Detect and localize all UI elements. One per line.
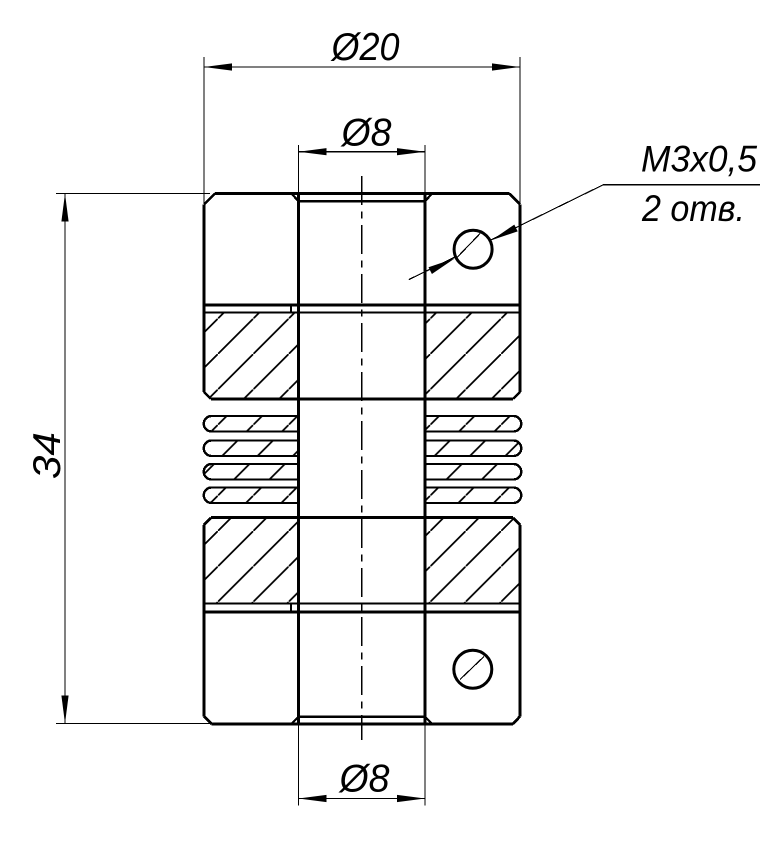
flexure bar right 2: [425, 440, 521, 456]
flexure bar left 1: [204, 416, 299, 432]
bottom clamp slit end: [290, 604, 292, 612]
dim 34 arrow bottom: [61, 696, 68, 724]
svg-text:Ø8: Ø8: [340, 112, 392, 155]
bottom face line: [212, 723, 513, 726]
leader arrow upper-right: [491, 225, 517, 241]
chamfer bottom-right: [513, 716, 520, 724]
hatch fill upper-left clamp block: [204, 313, 299, 399]
left outer edge upper half: [203, 205, 206, 393]
lower block top edge: [211, 516, 513, 519]
screw hole bottom axis chord: [460, 657, 484, 680]
bore line right: [423, 194, 426, 725]
flexure bar left 3: [204, 464, 299, 480]
dim Ø20 arrow left: [204, 63, 232, 70]
top bore chamfer line: [299, 200, 426, 202]
leader arrow lower-left: [429, 258, 455, 274]
dim Ø8 bottom extension right: [424, 724, 426, 806]
flexure bar right 4: [425, 488, 521, 504]
dim Ø8 top arrow right: [397, 148, 425, 155]
hatch fill upper-right clamp block: [425, 313, 520, 399]
dim Ø8 bottom extension left: [298, 724, 300, 806]
bottom bore chamfer diagonal right: [425, 717, 432, 724]
top hub bottom edge: [204, 304, 520, 307]
dim Ø8 bottom arrow left: [299, 795, 327, 802]
hatch fill lower-right clamp block: [425, 518, 520, 604]
svg-text:Ø8: Ø8: [338, 758, 390, 801]
top clamp slit lower line: [204, 312, 520, 314]
dim Ø8 top arrow left: [299, 148, 327, 155]
chamfer upper-block bottom-right: [513, 392, 520, 399]
leader line to thread note: [409, 257, 456, 280]
left outer edge lower half: [203, 525, 206, 716]
flexure bar right 1: [425, 416, 521, 432]
dim Ø20 line: [204, 66, 520, 68]
chamfer top-right: [510, 194, 521, 205]
dim Ø8 top extension right: [424, 145, 426, 194]
chamfer bottom-left: [204, 716, 212, 724]
screw hole top axis chord: [457, 233, 480, 257]
top bore chamfer diagonal left: [291, 194, 298, 202]
svg-text:М3х0,5: М3х0,5: [641, 139, 757, 180]
flexure bar right 3: [425, 464, 521, 480]
hatch fill lower-left clamp block: [204, 518, 299, 604]
top face line: [215, 192, 510, 195]
flexure bar left 4: [204, 488, 299, 504]
dim Ø8 top extension left: [298, 145, 300, 194]
flexure bar left 2: [204, 440, 299, 456]
dim 34 arrow top: [61, 194, 68, 222]
bottom bore chamfer line: [299, 715, 426, 717]
chamfer top-left: [204, 194, 215, 205]
right outer edge lower half: [519, 525, 522, 716]
svg-text:34: 34: [26, 432, 69, 479]
bore line left: [297, 194, 300, 725]
dim Ø8 top line: [299, 151, 426, 153]
dim Ø8 bottom line: [299, 798, 426, 800]
top bore chamfer diagonal right: [425, 194, 432, 202]
bottom hub top edge: [204, 611, 520, 614]
chamfer lower-block top-right: [513, 518, 520, 526]
screw hole bottom: [454, 650, 492, 688]
screw hole top: [454, 230, 492, 268]
chamfer upper-block bottom-left: [204, 392, 211, 399]
svg-text:Ø20: Ø20: [330, 26, 400, 69]
dim Ø20 extension line right: [519, 57, 521, 204]
dim Ø20 arrow right: [492, 63, 520, 70]
upper block bottom edge: [211, 398, 513, 401]
dim Ø20 extension line left: [203, 57, 205, 204]
lower block bottom edge: [204, 603, 520, 605]
top clamp slit end: [290, 305, 292, 313]
dim 34 extension top: [56, 193, 210, 195]
center line: [361, 176, 363, 740]
right outer edge upper half: [519, 205, 522, 393]
dim 34 line: [64, 194, 66, 724]
dim Ø8 bottom arrow right: [397, 795, 425, 802]
svg-text:2 отв.: 2 отв.: [641, 188, 745, 229]
chamfer lower-block top-left: [204, 518, 211, 526]
bottom bore chamfer diagonal left: [292, 717, 299, 724]
dim 34 extension bottom: [56, 723, 212, 725]
